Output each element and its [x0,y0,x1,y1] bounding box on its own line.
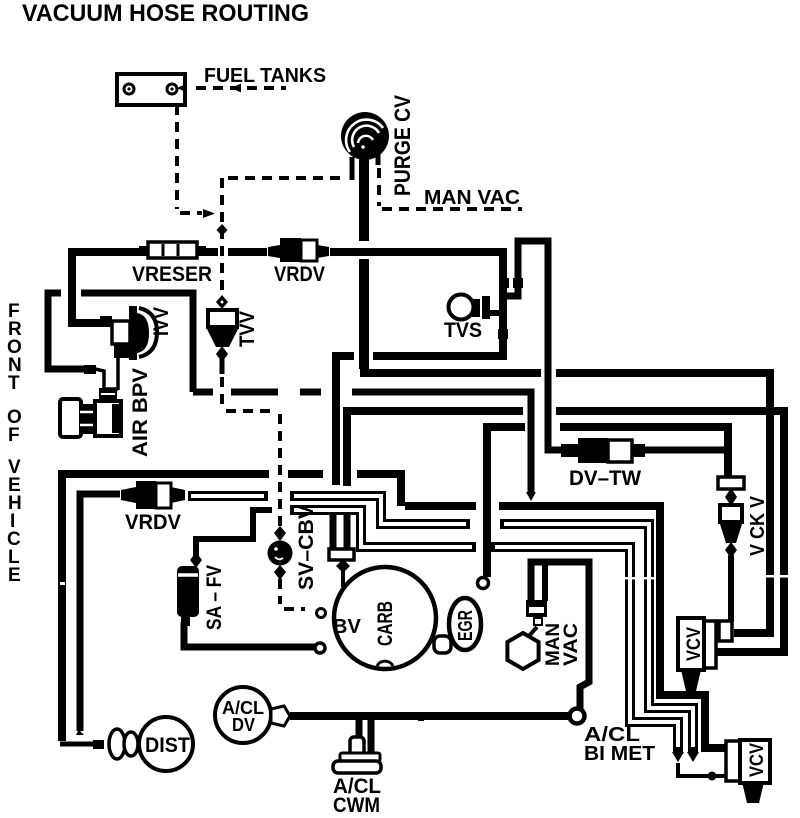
carburetor CARB [315,567,436,669]
node diamond on TVV column [217,224,228,236]
fuel tank sender FUEL TANKS [117,74,185,105]
wire thick trunk y474 y506 to staircase VCV2 [62,474,727,748]
air cleaner delay valve A/CL DV [215,687,290,743]
wire SA-FV to carb y647 [184,622,316,647]
wire SA-FV zigzag [196,510,272,558]
wire main VRESER VRDV line y252 with TVS drop [72,252,503,485]
svg-text:BI MET: BI MET [584,743,655,765]
wire MAN VAC jog x548 [503,241,563,450]
wire DV-TW branch y450 [645,447,728,454]
arrow hose end left [672,752,684,762]
separator filter SA-FV [177,552,202,626]
wire purge right leg stub [376,150,381,165]
svg-text:BV: BV [333,616,361,638]
bowl vent port BV fitting [329,549,354,573]
svg-text:E: E [8,565,21,586]
svg-text:F: F [8,425,20,446]
svg-text:CWM: CWM [333,794,380,817]
wire hex stub [542,562,548,601]
svg-text:TVS: TVS [444,319,482,342]
wire TVV bottom stub [220,359,225,374]
svg-text:VRDV: VRDV [125,511,181,534]
wire EGR riser and y427 line to V CK V [487,427,728,577]
svg-text:DV–TW: DV–TW [569,467,641,490]
solenoid vent valve SV-CBV [268,526,293,580]
arrow junction into TVV column [203,209,215,218]
A/CL BI MET port circle [570,709,585,724]
distributor DIST [93,717,193,771]
dash fuel tank drop [177,105,202,213]
svg-text:VCV: VCV [684,627,705,661]
arrow fuel leader mid [231,84,241,93]
wire BI MET thin line y776 to VCV2 [678,763,740,776]
wire BV2 corner y411 line [347,411,784,652]
wire purge left leg [350,157,355,180]
svg-text:SV–CBV: SV–CBV [295,505,318,590]
arrow fuel leader [177,84,187,93]
svg-text:VAC: VAC [561,623,582,666]
air bypass valve AIR BPV [60,388,121,437]
dash MAN VAC leader [379,168,522,209]
dash SV-CBV to carb [280,579,305,609]
thermal vacuum switch TVS [449,295,491,320]
wire V CK V to VCV1 fitting [728,555,734,622]
wire purge to right side y373 [360,373,770,633]
hollow hose VRDV2 run (black outer) [188,496,693,752]
wire MAN VAC hex inverted U [531,562,589,709]
svg-text:AIR BPV: AIR BPV [129,368,152,457]
wire purge CV down-leg [359,150,369,369]
label FRONT OF VEHICLE (stacked) [7,301,22,586]
svg-text:V CK V: V CK V [747,495,769,556]
vacuum restrictor delay valve VRDV (top) [268,238,329,262]
svg-text:DV: DV [232,715,255,735]
svg-text:DIST: DIST [145,734,190,757]
vacuum restrictor delay valve VRDV (left) [121,481,185,509]
svg-text:SA – FV: SA – FV [203,565,226,630]
svg-text:EGR: EGR [455,610,477,641]
delay valve two-way DV-TW [561,438,645,463]
carb to EGR link [434,636,451,653]
hollow hose SA-FV run (black outer) [290,510,678,752]
wire IVV feed y293 and AIR BPV corner [48,293,531,494]
svg-text:PURGE CV: PURGE CV [390,95,415,196]
canister purge valve PURGE CV [341,112,389,160]
arrow tip x531 riser [526,492,536,501]
svg-text:VCV: VCV [747,743,768,777]
wire DIST hookup [60,742,96,747]
wire VRDV2 left drop x80 [80,494,120,731]
EGR valve EGR [449,578,489,651]
svg-text:IVV: IVV [150,307,173,336]
wire BV riser stubs [333,513,347,549]
svg-text:CARB: CARB [374,601,397,646]
svg-text:VACUUM HOSE ROUTING: VACUUM HOSE ROUTING [22,0,309,27]
air cleaner cold weather modulator A/CL CWM [333,737,381,773]
vacuum control valve VCV (upper) [678,618,732,691]
dash fuel tank leader [196,86,286,90]
joint ticks (white) [60,575,789,585]
vacuum control valve VCV (lower) [726,740,770,803]
wire CWM stubs [359,716,371,754]
dash TVV to SV-CBV [222,377,280,527]
wire A/CL DV manifold y716 [290,712,569,720]
svg-text:TVV: TVV [236,311,259,347]
svg-text:FUEL TANKS: FUEL TANKS [204,65,326,87]
node dot on BI MET line [708,772,717,781]
wire BV stem into carb [341,570,345,587]
svg-text:MAN VAC: MAN VAC [424,187,520,209]
vacuum check valve V CK V [718,477,744,558]
svg-text:VRESER: VRESER [132,263,212,286]
node nub on A/CL DV line [418,714,424,721]
manifold vacuum tap MAN VAC hexagon [507,600,547,669]
svg-text:T: T [8,373,20,394]
dash TVV column [222,178,345,296]
wire AIR BPV thin link [95,369,104,396]
arrow hose end right [687,752,699,762]
svg-text:VRDV: VRDV [274,263,325,286]
thermal vent valve TVV [206,295,239,362]
hollow hose white cores [191,496,693,747]
wire TVS tee [488,310,504,316]
vacuum reservoir VRESER [139,242,206,258]
idle vent valve IVV [100,306,157,390]
nub on AIR BPV feed [84,365,96,374]
nubs on TVS riser [499,278,509,288]
dashed routing lines [177,88,522,609]
